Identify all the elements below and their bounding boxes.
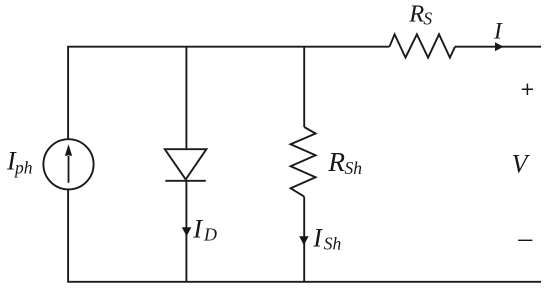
minus sign: [518, 239, 532, 241]
current source U1 circle: [43, 139, 93, 189]
label ID: [192, 214, 217, 245]
current source arrow: [65, 144, 72, 183]
resistor RSh zigzag: [291, 127, 316, 197]
wire top-right segment: [455, 46, 541, 48]
label RS: [408, 1, 432, 29]
svg-text:S: S: [423, 9, 432, 29]
label Iph: [6, 147, 33, 178]
shunt current arrow ISh: [299, 236, 308, 245]
plus sign: [522, 84, 533, 95]
label RSh: [327, 146, 362, 178]
svg-text:I: I: [312, 224, 323, 253]
svg-text:Sh: Sh: [345, 158, 363, 178]
resistor RS zigzag: [390, 34, 456, 57]
svg-text:Sh: Sh: [324, 234, 342, 254]
svg-text:R: R: [408, 1, 424, 28]
diode current arrow ID: [182, 227, 192, 236]
wire left-top and top rail: [68, 47, 389, 140]
output current arrow I: [495, 42, 504, 51]
svg-text:V: V: [512, 149, 531, 178]
diode D1 triangle: [165, 149, 207, 179]
svg-text:D: D: [203, 225, 217, 245]
wire shunt branch lower: [303, 197, 305, 282]
wire left-bottom and bottom rail: [68, 189, 541, 281]
svg-text:I: I: [493, 18, 503, 44]
svg-text:I: I: [192, 214, 203, 244]
wire diode branch lower: [185, 181, 187, 282]
wire diode branch upper: [185, 47, 187, 149]
svg-text:ph: ph: [13, 158, 33, 178]
svg-text:R: R: [327, 146, 345, 177]
wire shunt branch upper: [303, 47, 305, 127]
label ISh: [312, 224, 341, 254]
diode D1 cathode bar: [165, 180, 205, 182]
